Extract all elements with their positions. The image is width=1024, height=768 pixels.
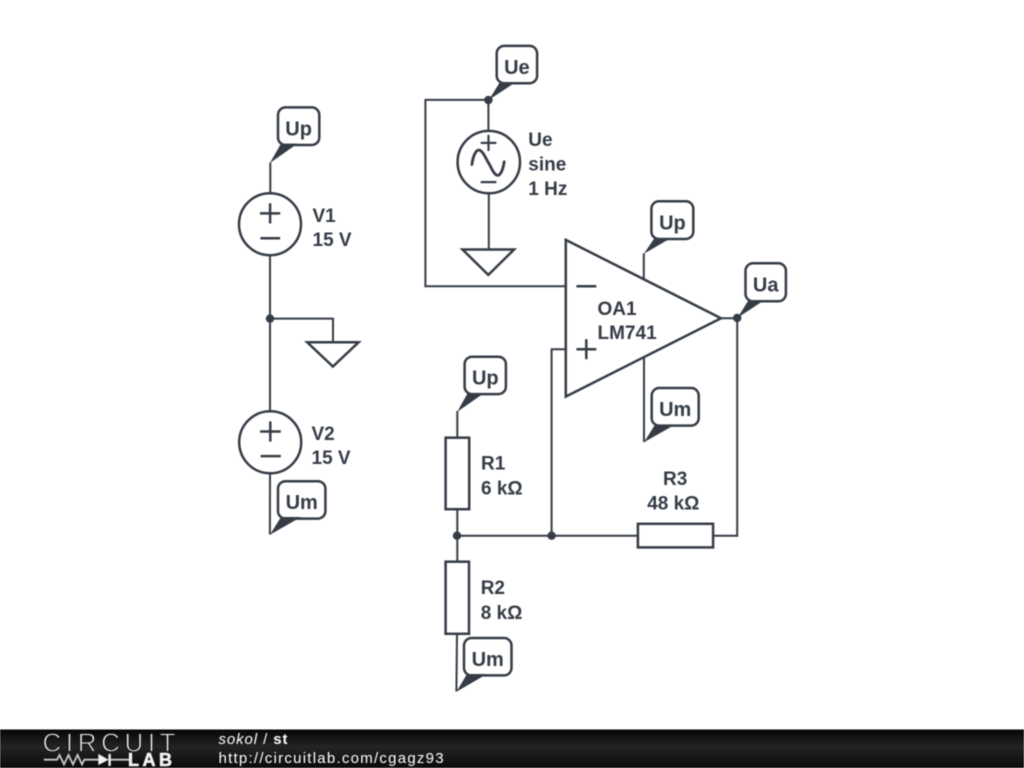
ground <box>463 250 515 275</box>
voltage source V1 <box>239 193 301 255</box>
node junction dot <box>733 314 741 322</box>
ground <box>307 342 358 366</box>
node label flag Up (on R1 top) <box>457 357 506 412</box>
svg-text:Um: Um <box>472 649 504 671</box>
diode symbol in logo <box>98 754 108 765</box>
svg-text:Um: Um <box>659 399 691 421</box>
svg-text:sokol / st: sokol / st <box>219 731 289 748</box>
wire <box>456 411 458 438</box>
wire <box>456 509 458 562</box>
node junction dot <box>484 96 493 105</box>
svg-text:LAB: LAB <box>128 750 176 768</box>
svg-text:15 V: 15 V <box>312 448 351 469</box>
R3 value label <box>647 469 699 514</box>
wire <box>487 100 489 132</box>
resistor R3 <box>638 524 713 548</box>
svg-text:http://circuitlab.com/cgagz93: http://circuitlab.com/cgagz93 <box>219 750 445 767</box>
svg-text:1 Hz: 1 Hz <box>528 179 567 200</box>
svg-text:6 kΩ: 6 kΩ <box>481 479 523 500</box>
R2 value label <box>481 578 523 624</box>
svg-text:R1: R1 <box>481 453 506 474</box>
resistor R1 <box>446 438 470 510</box>
svg-text:Up: Up <box>659 213 686 235</box>
svg-text:Ua: Ua <box>753 275 779 297</box>
CircuitLab logo: resistor-diode squiggle <box>44 755 129 764</box>
wire <box>269 163 271 195</box>
svg-text:sine: sine <box>528 154 566 175</box>
svg-text:V1: V1 <box>313 206 337 227</box>
wire <box>488 193 490 249</box>
resistor R2 <box>446 562 469 634</box>
voltage source V2 <box>239 411 301 473</box>
op-amp OA1 <box>566 240 721 397</box>
wire <box>643 253 645 279</box>
wire (to op-amp + input) <box>552 349 566 536</box>
svg-text:LM741: LM741 <box>598 323 658 344</box>
node label flag Up (op-amp V+) <box>644 201 693 253</box>
wire <box>643 357 645 442</box>
wire <box>455 634 458 692</box>
node label flag Up (on V1 top) <box>270 107 319 163</box>
voltage source Ue (sine) <box>458 131 520 193</box>
svg-text:V2: V2 <box>312 424 335 445</box>
svg-text:48 kΩ: 48 kΩ <box>647 494 699 515</box>
wire (output) <box>721 317 737 319</box>
wire <box>713 318 737 536</box>
wire <box>270 319 333 343</box>
node label flag Um (on V2 bottom) <box>270 481 326 535</box>
svg-text:R2: R2 <box>481 578 505 599</box>
svg-text:Up: Up <box>472 368 499 390</box>
svg-text:8 kΩ: 8 kΩ <box>481 603 523 624</box>
node junction dot <box>266 314 274 322</box>
wire (horizontal net) <box>457 535 638 537</box>
svg-text:OA1: OA1 <box>598 299 638 320</box>
node label flag Ua <box>738 263 786 317</box>
node label flag Um (on R2 bottom) <box>456 638 511 692</box>
footer bar <box>0 730 1024 768</box>
wire <box>425 100 565 286</box>
V2 value label <box>312 424 351 469</box>
node junction dot <box>453 532 461 540</box>
R1 value label <box>481 453 523 499</box>
svg-text:Ue: Ue <box>504 57 530 79</box>
svg-text:Ue: Ue <box>528 130 552 151</box>
node label flag Um (op-amp V-) <box>644 388 699 442</box>
svg-text:Up: Up <box>285 119 312 141</box>
wire <box>269 255 271 411</box>
wire <box>269 473 271 534</box>
svg-text:15 V: 15 V <box>313 230 352 251</box>
Ue value label <box>528 130 567 200</box>
V1 value label <box>313 206 352 251</box>
svg-text:R3: R3 <box>663 469 687 490</box>
svg-text:Um: Um <box>286 492 318 514</box>
node junction dot <box>547 532 555 540</box>
OA1 value label <box>598 299 658 344</box>
node label flag Ue <box>489 46 537 100</box>
